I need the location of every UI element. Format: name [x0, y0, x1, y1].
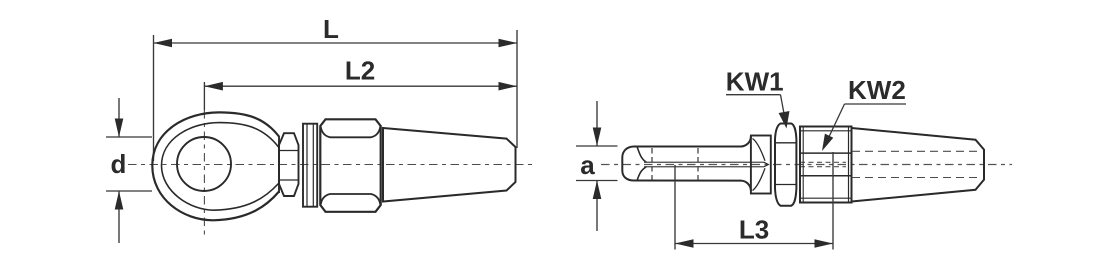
hex bell (eye shank) [279, 133, 299, 196]
stud dome fillet top [637, 147, 647, 163]
KW2 leader [827, 104, 845, 141]
svg-text:L: L [323, 14, 339, 44]
KW2 left chamfer line [802, 127, 804, 203]
cone body [383, 128, 516, 202]
svg-text:d: d [111, 149, 127, 179]
arrow L right [499, 39, 518, 48]
KW2 bottom chamfer line [800, 197, 852, 199]
svg-text:a: a [580, 150, 595, 180]
KW2 top chamfer line [800, 130, 852, 132]
KW2 right chamfer line [848, 127, 850, 203]
arrow L3 right [815, 239, 834, 248]
L3 extension right [832, 152, 834, 250]
L3 extension left [674, 165, 676, 250]
a dimension bottom tick [576, 180, 618, 182]
KW2 underline [845, 103, 907, 105]
collar taper curve top [753, 139, 766, 161]
collar washer [303, 124, 317, 207]
hidden bore line bottom [852, 177, 979, 179]
nut facet line top [321, 127, 381, 138]
KW1 facet lines [775, 142, 796, 144]
hidden line stud 1 [651, 148, 653, 180]
a arrow top [596, 101, 598, 146]
L3 dimension line [675, 243, 833, 245]
extension line L left [153, 35, 155, 161]
svg-text:KW2: KW2 [848, 75, 906, 105]
centerline horizontal left view [128, 164, 533, 166]
thread root line bottom [644, 166, 764, 168]
d arrow top [118, 98, 120, 137]
hex bell facet lines [279, 150, 299, 152]
collar right view [751, 136, 771, 194]
d dimension bottom tick [106, 190, 152, 192]
centerline horizontal right view [601, 164, 1012, 166]
thread root line top [644, 161, 764, 163]
stud flare top [741, 136, 751, 146]
hidden bore line top [852, 150, 979, 152]
KW1 underline [726, 94, 781, 96]
stud dome fillet bottom [637, 167, 647, 181]
eye outer profile [152, 112, 279, 220]
svg-text:L2: L2 [345, 56, 375, 86]
eye inner profile [162, 123, 279, 211]
dimension line L [154, 42, 518, 44]
KW2 leader arrow [822, 134, 833, 151]
nut KW1 [775, 124, 796, 206]
stud outline [622, 147, 741, 181]
KW1 leader [781, 95, 786, 119]
arrow L3 left [675, 239, 694, 248]
a arrow bottom [596, 181, 598, 232]
dimension line L2 [204, 85, 517, 87]
arrow L2 right [499, 82, 518, 91]
d dimension top tick [106, 136, 152, 138]
svg-text:L3: L3 [739, 215, 769, 245]
thread pinch [764, 162, 768, 166]
nut facet line bottom [321, 194, 381, 205]
a dimension top tick [576, 145, 618, 147]
KW2 facet/bore line top [800, 152, 852, 154]
collar taper curve bottom [753, 168, 766, 190]
d arrow bottom [118, 191, 120, 243]
extension line L/L2 right [516, 30, 518, 148]
eye hole [177, 137, 231, 191]
extension line L2 left (above eye) [203, 82, 205, 110]
arrow L2 left [204, 82, 223, 91]
stud flare bottom [741, 181, 751, 191]
hex KW2 (body) [800, 127, 852, 203]
collar inner vertical lines [306, 124, 308, 207]
hidden thread lines through nuts [800, 161, 846, 163]
hex bell left edge [278, 136, 280, 193]
centerline vertical through eye [203, 110, 205, 235]
cone right view [852, 128, 985, 202]
KW1 leader arrow [779, 111, 790, 129]
hidden line stud 2 [697, 148, 699, 180]
svg-text:KW1: KW1 [726, 67, 784, 97]
arrow L left [154, 39, 173, 48]
body nut (hex) [320, 119, 380, 212]
KW2 facet/bore line bottom [800, 175, 852, 177]
